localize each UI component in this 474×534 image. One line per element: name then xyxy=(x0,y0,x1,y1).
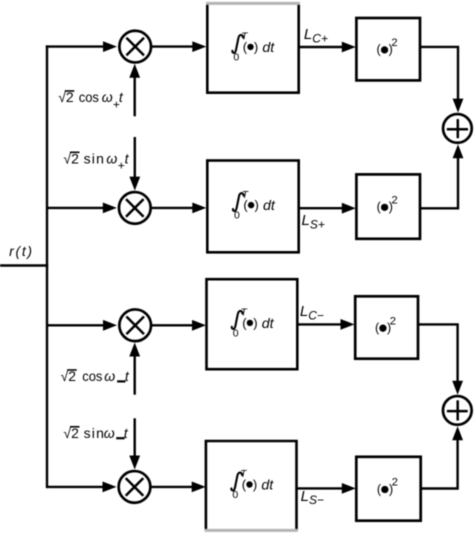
node label L_C+ xyxy=(304,26,328,45)
svg-text:L: L xyxy=(302,212,310,229)
wire: sin w+ stub arrow down into M2 xyxy=(134,137,136,177)
wire: S2 to adder A1 (right then up) xyxy=(420,158,458,209)
integrator block I4 (bottom edge grey at image crop) xyxy=(205,441,298,530)
label: sqrt(2) cos w- t xyxy=(61,368,130,384)
wire: M1 to integrator I1 xyxy=(152,45,193,47)
wire: I4 to squarer S4 xyxy=(297,487,343,489)
svg-text:ω: ω xyxy=(104,368,115,384)
wire: I3 to squarer S3 xyxy=(297,323,341,325)
wire: cos w- stub arrow up into M3 xyxy=(133,356,135,395)
svg-text:L: L xyxy=(301,488,309,505)
wire: M4 to integrator I4 xyxy=(151,486,192,488)
wire: I2 to squarer S2 xyxy=(299,207,343,209)
svg-text:C+: C+ xyxy=(312,31,328,45)
wire: bus to multiplier M1 xyxy=(46,45,104,47)
node label L_C- xyxy=(300,303,324,322)
multiplier M2 xyxy=(119,192,151,224)
svg-text:r(t): r(t) xyxy=(9,243,34,259)
svg-text:ω: ω xyxy=(104,425,115,441)
svg-text:ω: ω xyxy=(102,89,113,105)
multiplier M1 xyxy=(119,31,151,63)
label: sqrt(2) sin w- t xyxy=(63,425,128,441)
squarer block S1 xyxy=(356,18,420,80)
svg-text:S−: S− xyxy=(309,493,324,507)
squarer block S4 xyxy=(356,457,420,521)
wire: vertical input bus xyxy=(46,45,48,488)
wire: sin w- stub arrow down into M4 xyxy=(133,418,135,456)
wire: cos w+ stub arrow up into M1 xyxy=(133,77,135,116)
adder A2 xyxy=(443,396,472,425)
squarer block S2 xyxy=(356,174,420,238)
wire: S1 to adder A1 (right then down) xyxy=(420,47,458,99)
integrator block I3 xyxy=(207,279,298,369)
svg-text:ω: ω xyxy=(106,150,117,166)
integrator block I2 xyxy=(207,161,298,253)
svg-text:cos: cos xyxy=(79,90,99,106)
svg-text:L: L xyxy=(304,26,312,43)
wire: bus to multiplier M4 xyxy=(47,486,103,488)
wire: M2 to integrator I2 xyxy=(152,207,193,209)
squarer block S3 xyxy=(355,296,418,358)
svg-text:S+: S+ xyxy=(310,217,325,231)
label: sqrt(2) sin w+ t xyxy=(63,150,129,172)
adder A1 xyxy=(443,114,472,143)
wire: bus to multiplier M3 xyxy=(47,324,104,326)
node label L_S+ xyxy=(302,212,325,231)
multiplier M4 xyxy=(119,471,151,503)
wire: S4 to adder A2 (right then up) xyxy=(421,440,458,489)
integrator block I1 (top edge grey at image crop) xyxy=(206,3,300,92)
wire: I1 to squarer S1 xyxy=(299,46,343,48)
svg-text:sin: sin xyxy=(84,425,106,441)
svg-text:sin: sin xyxy=(84,150,106,166)
svg-text:cos: cos xyxy=(82,369,102,385)
svg-text:C−: C− xyxy=(308,308,324,322)
wire: bus to multiplier M2 xyxy=(47,207,103,209)
wire: M3 to integrator I3 xyxy=(152,324,193,326)
wire: r(t) input line xyxy=(0,264,48,266)
wire: S3 to adder A2 (right then down) xyxy=(418,324,458,381)
label: sqrt(2) cos w+ t xyxy=(58,89,124,111)
svg-text:L: L xyxy=(300,303,308,320)
multiplier M3 xyxy=(119,309,151,341)
node label L_S- xyxy=(301,488,324,507)
